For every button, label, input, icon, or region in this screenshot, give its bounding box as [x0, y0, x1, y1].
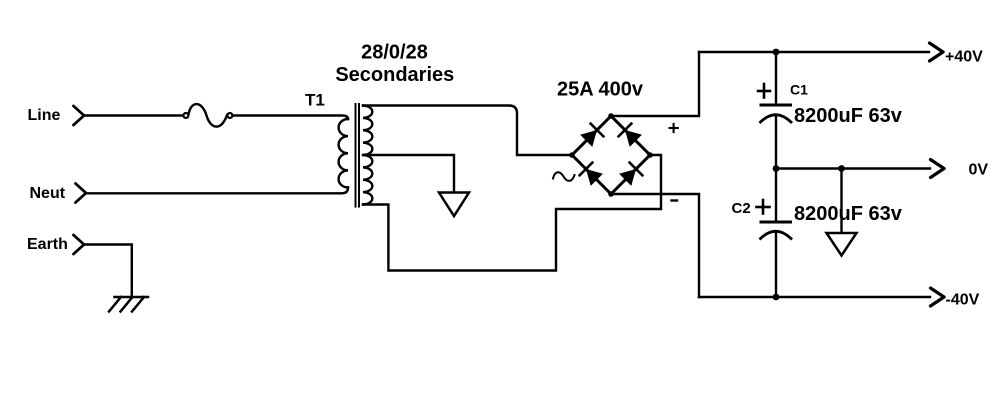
wire secondary top to bridge AC1: [363, 106, 572, 156]
junction dot middle rail / caps: [773, 165, 780, 172]
svg-text:28/0/28: 28/0/28: [361, 42, 428, 64]
svg-text:8200uF 63v: 8200uF 63v: [794, 105, 903, 127]
svg-text:+40V: +40V: [945, 49, 983, 66]
arrow -40V: [931, 288, 945, 306]
wire fuse to transformer primary: [233, 116, 348, 120]
label plus C1: [758, 84, 770, 98]
junction dot top rail / C1: [773, 49, 780, 56]
ground chassis earth symbol: [109, 297, 148, 312]
bridge diode D2 top-right: [619, 124, 643, 148]
wire middle rail to C2: [775, 169, 777, 223]
wire Line to fuse: [84, 114, 183, 116]
svg-text:Secondaries: Secondaries: [335, 64, 454, 86]
bridge vertex dots: [569, 113, 653, 197]
fuse F1: [183, 104, 232, 127]
transformer T1 core: [356, 104, 360, 207]
junction dot bottom rail / C2: [773, 294, 780, 301]
capacitor C2: [761, 222, 792, 239]
svg-text:0V: 0V: [969, 162, 989, 179]
wire +40V top rail: [699, 51, 929, 53]
transformer T1 primary winding: [339, 119, 348, 188]
svg-text:C2: C2: [732, 200, 751, 217]
wire -40V bottom rail: [699, 296, 930, 298]
svg-text:8200uF 63v: 8200uF 63v: [794, 203, 903, 225]
svg-text:25A 400v: 25A 400v: [557, 79, 644, 101]
transformer T1 secondary winding: [363, 106, 372, 205]
ground arrow at 0V: [827, 233, 857, 256]
wire C1 to middle rail: [775, 115, 777, 169]
label plus C2: [757, 200, 770, 214]
wire secondary bottom to bridge AC2: [363, 155, 661, 271]
node Neut input connector: [76, 184, 87, 203]
wire 0V to ground arrow: [840, 169, 842, 234]
bridge diode D1 top-left: [580, 124, 604, 148]
svg-text:T1: T1: [305, 91, 325, 110]
wire secondary center tap: [363, 155, 454, 193]
arrow 0V: [931, 160, 945, 178]
AC squiggle symbol: [553, 172, 575, 181]
node Line input connector: [74, 106, 85, 125]
bridge diode D4 bottom-right: [619, 163, 643, 187]
svg-text:Neut: Neut: [30, 185, 66, 202]
wire bridge minus output to bottom rail: [611, 194, 699, 297]
svg-text:Earth: Earth: [27, 236, 68, 253]
svg-text:-40V: -40V: [946, 292, 980, 309]
label plus at bridge output: [670, 124, 678, 132]
wire top rail to C1: [775, 52, 777, 105]
node Earth input connector: [74, 235, 85, 254]
capacitor C1: [761, 105, 792, 122]
wire Earth to ground: [84, 245, 132, 298]
arrow +40V: [930, 43, 944, 61]
bridge diode D3 bottom-left: [580, 163, 604, 187]
bridge rectifier BR1 diamond: [572, 116, 650, 194]
svg-text:Line: Line: [28, 107, 61, 124]
wire C2 to bottom rail: [775, 232, 777, 298]
junction dot 0V ground branch: [838, 165, 845, 172]
wire Neut to transformer primary: [86, 188, 348, 194]
wire 0V middle rail: [776, 167, 930, 169]
ground arrow at center tap: [439, 193, 469, 217]
svg-text:C1: C1: [790, 82, 808, 98]
label minus at bridge output: [672, 199, 678, 201]
wire bridge plus output to top rail: [611, 52, 699, 116]
